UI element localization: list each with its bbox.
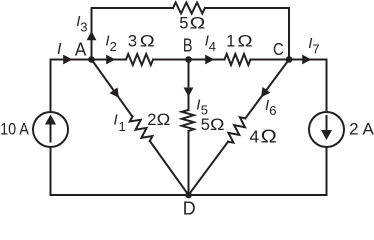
svg-text:7: 7 bbox=[312, 42, 319, 57]
svg-text:2 A: 2 A bbox=[349, 121, 374, 139]
svg-text:4: 4 bbox=[209, 39, 216, 54]
svg-text:1: 1 bbox=[119, 119, 126, 134]
svg-text:Ω: Ω bbox=[190, 14, 206, 33]
svg-text:4: 4 bbox=[249, 127, 259, 147]
svg-text:D: D bbox=[183, 199, 196, 217]
svg-text:Ω: Ω bbox=[210, 115, 225, 134]
svg-text:1: 1 bbox=[226, 33, 235, 51]
svg-text:2: 2 bbox=[110, 39, 117, 54]
svg-text:Ω: Ω bbox=[237, 32, 252, 51]
svg-text:Ω: Ω bbox=[140, 32, 155, 51]
svg-text:I: I bbox=[57, 41, 62, 58]
svg-text:5: 5 bbox=[201, 116, 210, 134]
svg-text:B: B bbox=[183, 36, 193, 56]
svg-text:A: A bbox=[75, 40, 86, 60]
svg-text:2: 2 bbox=[147, 111, 156, 129]
svg-text:10 A: 10 A bbox=[0, 121, 29, 139]
svg-text:Ω: Ω bbox=[261, 127, 277, 147]
svg-text:3: 3 bbox=[128, 33, 137, 51]
svg-text:C: C bbox=[273, 39, 284, 59]
svg-text:I: I bbox=[114, 112, 118, 129]
svg-text:Ω: Ω bbox=[157, 110, 171, 129]
svg-text:5: 5 bbox=[179, 15, 188, 33]
svg-text:3: 3 bbox=[80, 20, 87, 35]
svg-text:6: 6 bbox=[269, 103, 276, 118]
